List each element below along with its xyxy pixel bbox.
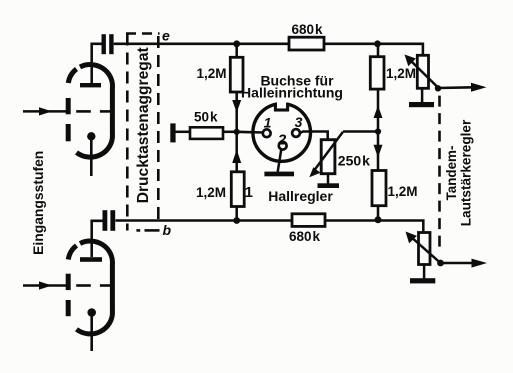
- junction dot top-left: [233, 40, 240, 47]
- potentiometer 250k body: [321, 140, 335, 174]
- flow arrow up into node: [232, 150, 241, 164]
- svg-text:1,2M: 1,2M: [386, 66, 416, 81]
- resistor 680k top: [289, 37, 324, 50]
- junction dot bottom-right: [375, 216, 382, 223]
- wire bottom-right pot to ground: [423, 265, 426, 279]
- svg-text:680k: 680k: [292, 22, 324, 37]
- ground bar below 250k: [318, 183, 340, 188]
- flow arrow down to lower channel: [374, 145, 383, 158]
- tube V2 lower envelope (solid right half): [77, 241, 113, 334]
- potentiometer bottom-right volume body: [419, 233, 431, 265]
- junction dot top-right: [374, 40, 381, 47]
- svg-text:1: 1: [264, 115, 272, 131]
- label 50k: [194, 110, 218, 125]
- wire: right vertical branch: [377, 44, 380, 221]
- input arrow upper: [23, 107, 66, 115]
- resistor 680k bottom: [292, 214, 325, 227]
- svg-text:1: 1: [245, 184, 253, 201]
- node e: [162, 28, 170, 44]
- label Eingangsstufen: [30, 151, 46, 255]
- output arrow top: [438, 83, 487, 92]
- label 1,2M upper-left: [196, 66, 226, 81]
- svg-text:2: 2: [277, 131, 287, 148]
- dashed box right line: [157, 36, 160, 225]
- resistor 1,2M upper-left: [230, 57, 243, 92]
- tube V1 upper grid (dashed): [76, 110, 111, 113]
- label Halleinrichtung: [241, 85, 343, 101]
- svg-text:Hallregler: Hallregler: [268, 188, 333, 204]
- svg-text:Halleinrichtung: Halleinrichtung: [241, 85, 343, 101]
- tube V2 lower grid (dashed): [76, 284, 111, 287]
- svg-text:1,2M: 1,2M: [196, 185, 226, 200]
- svg-text:Drucktastenaggregat: Drucktastenaggregat: [135, 47, 152, 203]
- svg-text:Tandem-: Tandem-: [444, 146, 459, 201]
- label 1,2M lower-left: [196, 185, 226, 200]
- pin label 2: [277, 131, 287, 148]
- label 250k: [338, 152, 370, 168]
- tube V2 lower anode: [80, 257, 102, 262]
- junction dot top output: [435, 85, 441, 91]
- potentiometer bottom-right volume wiper arrow: [406, 232, 441, 264]
- flow arrow down into node: [232, 100, 241, 113]
- label 680k bottom: [289, 229, 321, 244]
- svg-text:50k: 50k: [194, 110, 218, 125]
- junction dot at mixing node: [234, 129, 240, 135]
- wire pin 3 to 250k tap: [300, 132, 328, 140]
- junction dot bottom-left: [233, 217, 240, 224]
- label 1,2M lower-right: [388, 184, 418, 199]
- output arrow bottom: [441, 259, 488, 268]
- svg-text:1,2M: 1,2M: [196, 66, 226, 81]
- tube V2 lower envelope (dashed left half): [68, 246, 76, 317]
- svg-text:b: b: [163, 222, 172, 238]
- svg-text:Eingangsstufen: Eingangsstufen: [30, 151, 46, 255]
- flow arrow up to upper channel: [374, 106, 383, 119]
- socket (Buchse) outline with keyway: [253, 99, 311, 162]
- label Buchse fuer: [260, 73, 334, 89]
- ground bar below pin 2: [264, 172, 294, 177]
- capacitor lower coupling: [103, 210, 116, 231]
- resistor 1,2M lower-right: [372, 171, 386, 206]
- label Drucktastenaggregat: [135, 47, 152, 203]
- junction dot bottom output: [437, 260, 444, 267]
- resistor 1,2M upper-right: [370, 57, 384, 89]
- pin label 3: [295, 114, 303, 130]
- wire to socket pin 1: [237, 131, 263, 134]
- svg-text:3: 3: [295, 114, 303, 130]
- capacitor upper coupling: [102, 34, 114, 54]
- svg-text:Lautstärkeregler: Lautstärkeregler: [459, 119, 474, 226]
- potentiometer top-right volume wiper arrow: [405, 55, 439, 88]
- dashed box left line: [126, 34, 129, 231]
- wire: left vertical branch: [235, 44, 238, 221]
- socket pin 3: [292, 129, 300, 137]
- node b: [163, 222, 172, 238]
- tube V1 upper cathode: [87, 132, 95, 176]
- input arrow lower: [23, 281, 66, 289]
- svg-text:e: e: [162, 28, 170, 44]
- socket pin 1: [263, 129, 271, 137]
- dashed separator right: [438, 96, 441, 250]
- ground bar bottom-right: [410, 278, 435, 283]
- label 1,2M upper-right: [386, 66, 416, 81]
- junction dot at reverb return node: [375, 128, 381, 134]
- svg-text:1,2M: 1,2M: [388, 184, 418, 199]
- tube V2 lower cathode: [87, 308, 96, 351]
- label 1 triode section: [245, 184, 253, 201]
- ground bar top-right: [409, 102, 434, 107]
- potentiometer top-right volume body: [417, 55, 428, 88]
- wire 250k tap to right branch: [343, 130, 378, 133]
- svg-text:680k: 680k: [289, 229, 321, 244]
- socket pin 2: [279, 142, 287, 150]
- wire 250k to ground: [327, 174, 330, 184]
- dashed box top edge: [126, 32, 160, 35]
- wire pin 2 to ground: [278, 149, 282, 172]
- tube V1 upper envelope (dashed left half): [68, 69, 76, 141]
- dashed box bottom edge: [136, 229, 159, 232]
- label Tandem-Lautstaerkeregler: [444, 119, 474, 226]
- resistor 50k: [175, 127, 237, 139]
- terminal bar at 50k input: [170, 123, 175, 142]
- wire: top rail: [92, 44, 423, 83]
- tube V1 upper envelope (solid right half): [77, 65, 113, 158]
- svg-text:250k: 250k: [338, 152, 370, 168]
- pin label 1: [264, 115, 272, 131]
- tube V1 upper anode: [80, 83, 101, 87]
- wire: bottom rail: [92, 221, 424, 258]
- wire top-right pot to ground: [421, 88, 424, 102]
- label 680k top: [292, 22, 324, 37]
- potentiometer 250k wiper arrow: [309, 132, 343, 177]
- label Hallregler: [268, 188, 333, 204]
- resistor 1,2M lower-left: [231, 172, 244, 207]
